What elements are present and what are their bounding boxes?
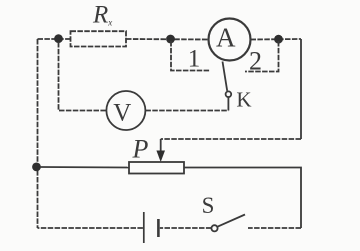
node: junction dot at contact 1 xyxy=(166,35,175,44)
wire: battery to bottom-left corner xyxy=(38,227,143,229)
wire: wiper wire xyxy=(161,138,301,140)
switch S contact circle xyxy=(211,225,217,231)
rheostat P box xyxy=(129,162,184,174)
wire: contact stub 2 xyxy=(245,41,279,72)
rheostat wiper arrow xyxy=(160,139,162,154)
node: junction dot rheostat branch xyxy=(32,163,41,172)
wire: bottom right to switch xyxy=(248,227,301,229)
svg-text:K: K xyxy=(236,88,251,112)
battery cell short plate xyxy=(157,219,160,237)
wire: resistor to ammeter xyxy=(126,38,209,41)
wire: V branch vertical xyxy=(59,42,107,111)
svg-text:P: P xyxy=(132,135,149,164)
switch K contact circle xyxy=(226,91,232,97)
wire: rheostat right xyxy=(184,168,301,229)
voltmeter V xyxy=(106,91,145,130)
svg-text:A: A xyxy=(216,22,236,52)
resistor Rx xyxy=(71,31,127,46)
node: junction dot left (V branch) xyxy=(54,34,63,43)
wire: switch to battery xyxy=(160,227,212,229)
svg-text:V: V xyxy=(113,100,131,127)
wire: top wire, left corner to resistor xyxy=(38,38,71,40)
svg-text:Rx: Rx xyxy=(92,2,112,29)
wire: voltmeter to K xyxy=(145,110,228,112)
battery cell long plate xyxy=(143,212,145,243)
svg-text:2: 2 xyxy=(249,47,262,76)
wire: left vertical xyxy=(37,39,39,228)
node: junction dot at contact 2 xyxy=(274,35,283,44)
switch K lever xyxy=(223,62,228,91)
wire: K contact down to voltmeter wire xyxy=(227,97,229,111)
ammeter A xyxy=(209,19,251,61)
svg-text:1: 1 xyxy=(188,46,201,73)
svg-text:S: S xyxy=(202,193,215,218)
wire: contact stub 1 xyxy=(171,41,210,71)
wire: ammeter to right corner xyxy=(251,38,302,41)
switch S lever xyxy=(217,215,245,227)
wire: rheostat left xyxy=(40,166,129,169)
wire: right vertical upper xyxy=(300,39,302,139)
